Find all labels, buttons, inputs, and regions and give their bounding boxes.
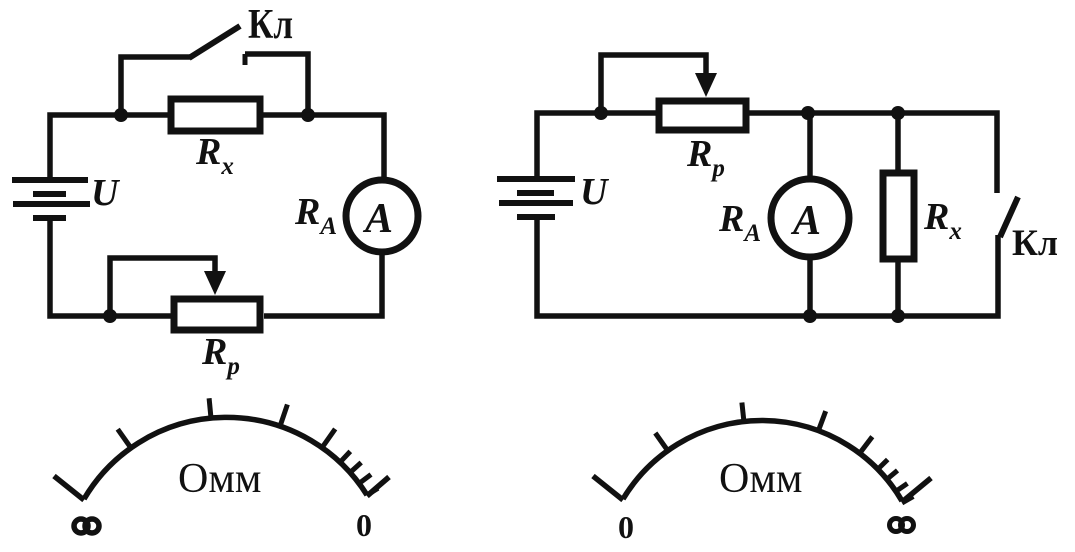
switch Kl blade (left circuit) <box>189 26 240 58</box>
scale end mark right (left gauge) <box>367 477 389 496</box>
wire: top rail from Rp to switch (right circuit) <box>747 113 997 193</box>
wire: switch branch riser and horizontal (left circuit) <box>121 57 190 115</box>
scale end mark right (right gauge) <box>902 478 931 502</box>
wire: switch right side down to top rail (left) <box>245 54 308 115</box>
resistor Rx (left circuit) <box>171 99 260 131</box>
svg-text:Омм: Омм <box>719 456 803 502</box>
svg-text:RA: RA <box>294 191 337 240</box>
svg-text:U: U <box>91 172 121 214</box>
wire: junction down to resistor Rx (right) <box>895 113 901 172</box>
potentiometer Rp body (left circuit) <box>174 299 260 330</box>
node: junction of wiper branch on bottom rail (left) <box>103 309 117 323</box>
label infinity (right gauge) <box>890 519 914 532</box>
battery U1 (left circuit) plates <box>12 180 90 218</box>
potentiometer wiper arrow (left) <box>204 271 226 295</box>
wire: ammeter down to bottom rail (right) <box>807 256 813 316</box>
wire: potentiometer wiper branch (left) <box>110 258 215 316</box>
node: junction of switch branch and top rail (left) <box>114 108 128 122</box>
svg-text:0: 0 <box>356 507 372 543</box>
scale end mark left (left gauge) <box>54 476 84 500</box>
wire: right battery top to potentiometer Rp (top rail) <box>537 113 658 179</box>
switch Kl blade (right circuit) <box>1000 197 1018 237</box>
node: junction above ammeter (right) <box>801 106 815 120</box>
ohmmeter scale arc (right) <box>623 421 902 501</box>
ohmmeter scale arc (left) <box>84 417 367 499</box>
svg-text:A: A <box>790 198 821 244</box>
switch Kl fixed contact tick (left) <box>243 54 248 65</box>
wire: resistor Rx down to bottom rail (right) <box>895 260 901 316</box>
ammeter A (right circuit) <box>771 179 849 257</box>
scale end mark left (right gauge) <box>593 476 623 500</box>
potentiometer wiper arrow (right) <box>695 73 717 97</box>
wire: ammeter down to bottom rail (left) <box>264 251 382 316</box>
svg-text:Rр: Rр <box>686 133 725 182</box>
svg-text:Омм: Омм <box>178 456 262 502</box>
svg-text:Rх: Rх <box>195 131 234 180</box>
svg-text:A: A <box>362 196 393 242</box>
resistor Rx (right circuit) <box>883 173 914 259</box>
svg-text:U: U <box>580 171 610 213</box>
ammeter A (left circuit) <box>346 180 418 252</box>
scale tick marks (right gauge) <box>655 403 913 504</box>
svg-text:Rх: Rх <box>923 196 962 245</box>
wire: switch lower contact down to bottom rail (right) <box>537 217 998 316</box>
potentiometer Rp body (right circuit) <box>659 101 746 130</box>
node: junction above Rx (right) <box>891 106 905 120</box>
label infinity (left gauge) <box>74 519 99 533</box>
wire: bottom rail from potentiometer to battery (left) <box>50 216 171 316</box>
scale tick marks (left gauge) <box>118 398 378 495</box>
svg-text:Rр: Rр <box>201 331 240 380</box>
svg-text:RA: RA <box>718 198 761 247</box>
wire: potentiometer wiper branch (right) <box>601 55 706 113</box>
wire: resistor Rx to ammeter (left, top right corner) <box>260 115 384 181</box>
svg-text:Кл: Кл <box>248 2 293 48</box>
node: junction of wiper branch on top rail (right) <box>594 106 608 120</box>
wire: left battery top to resistor Rx (top rail left) <box>50 115 168 180</box>
battery U2 (right circuit) plates <box>497 179 575 217</box>
svg-text:Кл: Кл <box>1012 223 1058 264</box>
node: junction below ammeter on bottom rail (right) <box>803 309 817 323</box>
node: junction below Rx on bottom rail (right) <box>891 309 905 323</box>
node: junction right of resistor Rx (left) <box>301 108 315 122</box>
wire: junction down to ammeter (right) <box>807 113 813 180</box>
svg-text:0: 0 <box>618 509 634 545</box>
